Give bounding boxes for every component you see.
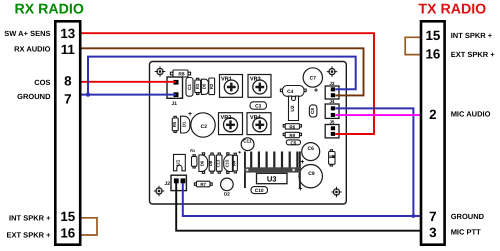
svg-text:R1: R1: [190, 149, 195, 153]
svg-text:7: 7: [429, 209, 436, 224]
svg-text:11: 11: [61, 42, 76, 57]
svg-text:EXT SPKR +: EXT SPKR +: [7, 231, 52, 240]
svg-text:EXT SPKR +: EXT SPKR +: [451, 50, 496, 59]
svg-text:16: 16: [425, 47, 440, 62]
svg-text:VR4: VR4: [250, 115, 262, 121]
svg-text:D8: D8: [208, 160, 213, 166]
svg-text:C5: C5: [291, 140, 297, 145]
svg-text:VR3: VR3: [250, 77, 261, 83]
svg-text:R5: R5: [172, 121, 177, 127]
svg-text:D2: D2: [224, 192, 230, 197]
svg-text:15: 15: [60, 209, 75, 224]
svg-text:INT SPKR +: INT SPKR +: [9, 214, 51, 223]
svg-text:R6: R6: [289, 124, 295, 129]
svg-text:RX AUDIO: RX AUDIO: [14, 44, 51, 53]
svg-text:15: 15: [425, 28, 440, 43]
svg-text:R8: R8: [178, 71, 184, 77]
svg-text:R4: R4: [231, 160, 236, 166]
svg-text:D6: D6: [200, 160, 205, 166]
svg-text:VR2: VR2: [221, 115, 232, 121]
svg-text:C11: C11: [243, 139, 252, 144]
svg-text:RX RADIO: RX RADIO: [15, 2, 84, 18]
svg-text:C6: C6: [307, 146, 314, 152]
svg-text:U2: U2: [290, 105, 296, 111]
svg-text:U3: U3: [267, 174, 277, 183]
svg-text:2: 2: [429, 107, 436, 122]
svg-text:16: 16: [60, 226, 75, 241]
svg-text:C15: C15: [224, 159, 229, 167]
svg-text:SW A+ SENS: SW A+ SENS: [4, 29, 50, 38]
svg-text:C2: C2: [201, 124, 208, 130]
svg-text:J2: J2: [165, 181, 171, 187]
svg-text:+: +: [314, 85, 319, 94]
svg-text:J3: J3: [329, 81, 335, 86]
svg-text:C8: C8: [310, 108, 315, 114]
svg-text:D5: D5: [202, 83, 207, 89]
svg-text:7: 7: [64, 91, 71, 106]
svg-text:MIC AUDIO: MIC AUDIO: [451, 110, 491, 119]
svg-text:3: 3: [429, 225, 436, 240]
svg-text:R7: R7: [200, 182, 206, 187]
svg-text:C7: C7: [310, 76, 317, 82]
svg-text:GROUND: GROUND: [17, 92, 51, 101]
svg-text:MIC PTT: MIC PTT: [451, 227, 481, 236]
svg-text:C1: C1: [187, 84, 192, 90]
svg-text:R2: R2: [209, 83, 214, 89]
svg-text:C3: C3: [255, 103, 261, 109]
svg-text:J1: J1: [172, 101, 178, 107]
svg-text:8: 8: [64, 73, 72, 88]
svg-text:COS: COS: [34, 78, 50, 87]
svg-text:J5: J5: [329, 120, 335, 125]
svg-text:D1: D1: [181, 121, 186, 127]
svg-text:13: 13: [60, 26, 75, 41]
svg-text:C13: C13: [215, 159, 220, 167]
svg-text:C4: C4: [287, 89, 293, 95]
svg-text:C10: C10: [255, 188, 264, 194]
svg-text:+: +: [300, 159, 304, 166]
svg-text:D3: D3: [328, 155, 333, 161]
svg-text:VR1: VR1: [221, 77, 232, 83]
svg-text:+: +: [188, 111, 192, 118]
svg-text:TX RADIO: TX RADIO: [418, 2, 486, 18]
svg-text:J4: J4: [329, 99, 335, 104]
svg-text:R9: R9: [289, 133, 295, 138]
svg-text:U1: U1: [176, 159, 182, 165]
svg-text:C9: C9: [308, 171, 315, 177]
svg-text:R3: R3: [195, 83, 200, 89]
svg-text:+: +: [298, 186, 302, 193]
svg-text:GROUND: GROUND: [451, 212, 485, 221]
svg-text:INT SPKR +: INT SPKR +: [451, 31, 493, 40]
